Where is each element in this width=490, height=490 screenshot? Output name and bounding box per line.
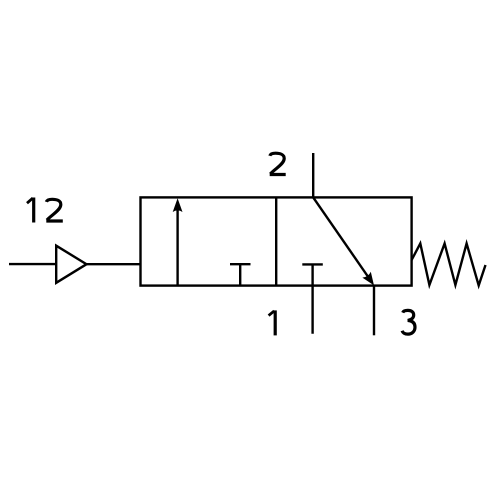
label 12 (pilot port)	[27, 198, 63, 223]
port 1 line (stem + connection below)	[311, 264, 313, 333]
port 2 line	[312, 153, 314, 197]
port 3 line	[373, 285, 375, 335]
label 2 (output port)	[270, 153, 286, 174]
pilot line stub	[9, 263, 56, 265]
pilot triangle (pneumatic pilot actuator)	[56, 246, 86, 283]
blocked port T (left position)	[230, 263, 251, 265]
return spring	[412, 244, 486, 286]
blocked port T (right position)	[302, 263, 323, 265]
wire pilot to valve	[87, 263, 141, 265]
flow diagonal arrow (right position, 2 to 3)	[313, 197, 371, 281]
position divider line	[275, 197, 277, 285]
valve body box (two positions)	[141, 197, 412, 285]
label 1 (supply port)	[269, 310, 276, 335]
label 3 (exhaust port)	[402, 310, 415, 334]
flow arrow (left position, 1 to 2)	[176, 208, 178, 286]
